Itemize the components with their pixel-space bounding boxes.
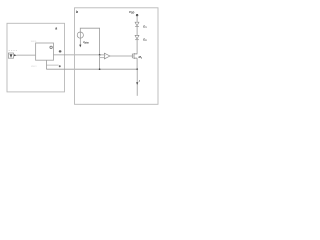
M1 drain/source verticals	[136, 53, 138, 55]
op-amp output wire	[110, 55, 132, 57]
faint dashed marks above sensor	[9, 49, 17, 52]
arrow from sensor	[14, 54, 17, 56]
op-amp U1	[104, 53, 110, 59]
output wire down	[136, 69, 138, 96]
wire sensor to block	[17, 54, 36, 56]
label on upper wire	[59, 50, 62, 52]
stub to inverting input	[100, 57, 105, 59]
readout circuit box (b)	[75, 8, 159, 105]
wire A stub	[46, 64, 58, 66]
diode D2	[135, 35, 139, 39]
wire D1 to D2	[136, 26, 138, 35]
svg-text:M1: M1	[139, 55, 143, 60]
svg-text:I: I	[139, 79, 140, 83]
svg-text:D1: D1	[143, 24, 147, 29]
svg-text:a: a	[55, 27, 57, 31]
svg-text:Ibias: Ibias	[83, 40, 89, 45]
transistor M1	[132, 53, 137, 59]
sensing element block	[36, 43, 54, 60]
vertical from block bottom	[45, 60, 47, 69]
wire current source loop	[80, 28, 99, 55]
svg-text:+: +	[105, 55, 106, 57]
svg-text:D2: D2	[143, 38, 147, 43]
diode D1	[135, 22, 139, 26]
block corner circle	[50, 46, 52, 48]
VDD terminal dot	[136, 14, 138, 16]
current arrow Iout	[136, 82, 138, 85]
sensor glyph	[10, 54, 12, 57]
current source arrow	[79, 32, 81, 45]
lower signal wire	[46, 68, 137, 70]
svg-text:elem: elem	[31, 64, 37, 68]
label on lower wire	[59, 65, 61, 67]
svg-text:b: b	[76, 10, 79, 14]
svg-text:VDD: VDD	[129, 10, 135, 15]
node junction dot upper	[99, 54, 101, 56]
sensor module box (a)	[7, 23, 65, 92]
svg-text:−: −	[105, 58, 106, 60]
wire D2 to M1 drain	[136, 40, 138, 54]
wire VDD to D1	[136, 15, 138, 22]
sensor element box	[8, 53, 13, 58]
current source I1 circle	[77, 32, 83, 38]
upper signal wire	[54, 54, 105, 56]
vertical inverting riser	[99, 55, 101, 69]
junction dot source node	[136, 68, 138, 70]
node junction dot lower	[99, 68, 101, 70]
